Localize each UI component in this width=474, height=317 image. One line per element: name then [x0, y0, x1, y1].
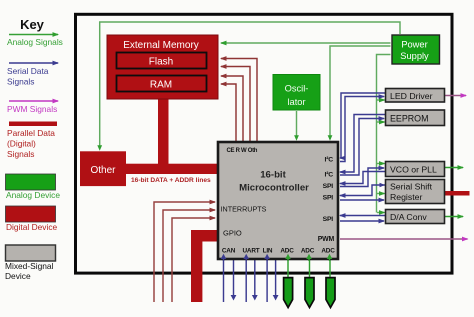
- parallel bus serial shift register output: [445, 191, 470, 196]
- svg-text:Register: Register: [390, 192, 422, 202]
- wire LED driver output: [445, 95, 467, 97]
- svg-text:Oscil-: Oscil-: [285, 84, 309, 94]
- key label Serial Data Signals: [7, 66, 49, 87]
- key label Analog Device: [6, 190, 60, 200]
- wire I2C2 to EEPROM: [340, 119, 384, 176]
- wire power distribution vertical: [377, 55, 391, 213]
- key label PWM Signals: [7, 104, 57, 114]
- parallel bus external memory vertical: [158, 98, 169, 168]
- svg-text:Serial Shift: Serial Shift: [390, 182, 433, 192]
- wire Oth to external memory: [221, 84, 236, 141]
- wire interrupt 1: [154, 202, 215, 302]
- LED driver block: [386, 89, 445, 103]
- wire interrupt 2: [163, 210, 215, 302]
- pin arrowhead ADC2 up: [306, 254, 312, 261]
- wire power to EEPROM: [377, 121, 385, 123]
- svg-text:Supply: Supply: [400, 51, 429, 61]
- wire R to external memory: [221, 67, 250, 142]
- parallel bus 16-bit data addr: [126, 164, 219, 174]
- parallel bus GPIO vertical: [191, 230, 202, 302]
- key serial data arrow: [9, 62, 58, 64]
- pin arrowhead LIN up: [264, 254, 270, 261]
- VCO or PLL block: [386, 162, 445, 177]
- wire I2C1 to micro: [340, 93, 385, 158]
- svg-text:Other: Other: [90, 165, 116, 176]
- wire power to serial shift register: [377, 193, 385, 195]
- wire SPI1 to VCO: [340, 168, 384, 187]
- wire LIN in: [266, 257, 268, 302]
- svg-text:lator: lator: [287, 97, 305, 107]
- EEPROM block: [386, 110, 445, 126]
- pin arrowhead CAN up: [221, 254, 227, 261]
- key title: [20, 17, 45, 32]
- svg-text:Signals: Signals: [7, 77, 34, 87]
- key mixed-signal device box: [6, 245, 56, 261]
- wire SPI2 to micro: [340, 183, 385, 196]
- svg-text:ADC: ADC: [321, 248, 335, 255]
- wire power top loop: [97, 22, 400, 151]
- wire W to external memory: [221, 76, 243, 141]
- wire power to microcontroller: [328, 46, 391, 141]
- svg-text:Analog Signals: Analog Signals: [7, 37, 63, 47]
- wire CAN in: [223, 257, 225, 302]
- wire power to external memory: [221, 42, 391, 44]
- wire PWM output: [340, 238, 468, 240]
- pin arrowhead ADC1 up: [285, 254, 291, 261]
- svg-text:I²C: I²C: [325, 157, 334, 164]
- wire ADC1: [287, 258, 289, 278]
- wire power to LED driver: [377, 99, 385, 101]
- wire I2C2 to micro: [340, 115, 385, 173]
- svg-text:D/A Conv: D/A Conv: [390, 212, 427, 222]
- key PWM arrow: [9, 100, 58, 102]
- svg-text:Signals: Signals: [7, 149, 34, 159]
- wire UART in: [245, 257, 247, 302]
- key analog signal arrow: [9, 34, 58, 36]
- external memory block: [107, 35, 218, 99]
- svg-text:LIN: LIN: [263, 248, 273, 255]
- svg-text:PWM Signals: PWM Signals: [7, 104, 57, 114]
- oscillator block: [273, 75, 320, 111]
- parallel bus GPIO horizontal: [191, 230, 219, 242]
- analog input arrow 3: [326, 278, 335, 308]
- ram block: [117, 76, 207, 92]
- pin arrowhead ADC3 up: [327, 254, 333, 261]
- wire power to VCO: [377, 163, 385, 165]
- svg-text:VCO or PLL: VCO or PLL: [390, 165, 437, 175]
- svg-text:Parallel Data: Parallel Data: [7, 128, 55, 138]
- svg-text:SPI: SPI: [323, 195, 334, 202]
- wire SPI3 to D/A converter: [340, 220, 384, 222]
- power supply block: [392, 35, 440, 64]
- svg-text:Mixed-Signal: Mixed-Signal: [5, 261, 54, 271]
- wire VCO output: [445, 167, 464, 169]
- wire D/A output: [445, 216, 464, 218]
- svg-text:ADC: ADC: [280, 248, 294, 255]
- key label Digital Device: [6, 222, 58, 232]
- svg-text:Device: Device: [5, 271, 31, 281]
- wire interrupt 3: [172, 218, 215, 302]
- microcontroller block U1: [218, 142, 338, 259]
- pin arrowhead UART up: [243, 254, 249, 261]
- svg-text:Key: Key: [20, 17, 45, 32]
- svg-text:Flash: Flash: [149, 57, 173, 68]
- wire SPI3 to micro: [340, 215, 385, 217]
- analog input arrow 2: [305, 278, 314, 308]
- key parallel data bar: [9, 122, 57, 127]
- analog input arrow 1: [284, 278, 293, 308]
- wire CE to external memory: [221, 59, 257, 142]
- wire SPI1 to micro: [340, 172, 385, 184]
- other block: [80, 151, 126, 186]
- label 16-bit DATA + ADDR lines: [131, 177, 211, 184]
- svg-text:CAN: CAN: [222, 248, 236, 255]
- svg-text:16-bit DATA + ADDR lines: 16-bit DATA + ADDR lines: [131, 177, 211, 184]
- D/A converter block: [386, 210, 445, 224]
- wire SPI2 to serial shift register: [340, 199, 384, 201]
- svg-text:ADC: ADC: [301, 248, 315, 255]
- key digital device box: [6, 206, 56, 222]
- svg-text:I²C: I²C: [325, 172, 334, 179]
- wire oscillator to microcontroller: [294, 111, 299, 141]
- key label Analog Signals: [7, 37, 63, 47]
- svg-text:SPI: SPI: [323, 216, 334, 223]
- key label Parallel Data (Digital) Signals: [7, 128, 55, 159]
- svg-text:CE R W Oth: CE R W Oth: [227, 148, 258, 154]
- svg-text:GPIO: GPIO: [223, 229, 242, 238]
- svg-text:Serial Data: Serial Data: [7, 66, 49, 76]
- svg-text:SPI: SPI: [323, 183, 334, 190]
- system boundary frame: [76, 14, 453, 273]
- key label Mixed-Signal Device: [5, 261, 54, 281]
- wire ADC3: [329, 258, 331, 278]
- key analog device box: [6, 174, 56, 190]
- svg-text:External Memory: External Memory: [123, 40, 199, 51]
- svg-text:EEPROM: EEPROM: [390, 114, 428, 124]
- svg-text:(Digital): (Digital): [7, 139, 36, 149]
- wire power to D/A converter: [377, 212, 385, 214]
- svg-text:LED Driver: LED Driver: [390, 91, 433, 101]
- svg-text:16-bit: 16-bit: [260, 170, 286, 181]
- wire ADC2: [309, 258, 311, 278]
- svg-text:Microcontroller: Microcontroller: [239, 183, 309, 194]
- svg-text:PWM: PWM: [318, 236, 335, 243]
- svg-text:Analog Device: Analog Device: [6, 190, 60, 200]
- wire I2C1 to LED driver: [340, 97, 384, 162]
- svg-text:INTERRUPTS: INTERRUPTS: [221, 205, 267, 214]
- wire UART out: [252, 258, 258, 301]
- wire CAN out: [231, 258, 237, 301]
- svg-text:RAM: RAM: [150, 80, 172, 91]
- svg-text:UART: UART: [243, 248, 260, 255]
- wire LIN out: [273, 258, 279, 301]
- svg-text:Power: Power: [401, 40, 427, 50]
- flash block: [117, 53, 207, 69]
- svg-text:Digital Device: Digital Device: [6, 222, 58, 232]
- serial shift register block: [386, 180, 445, 204]
